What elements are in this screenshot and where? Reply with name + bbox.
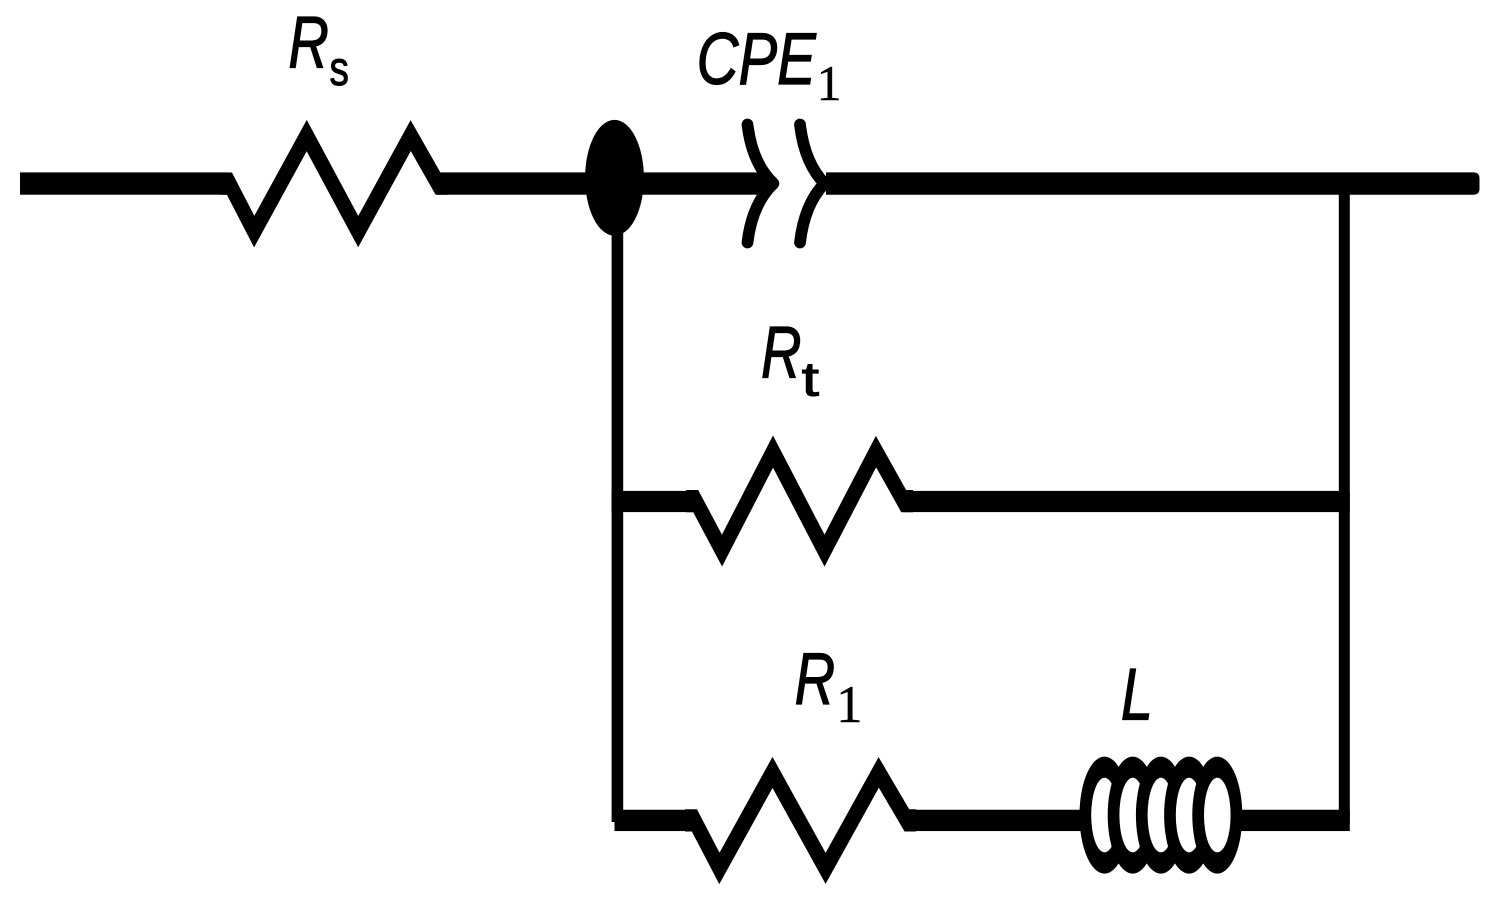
svg-text:R: R (795, 639, 836, 720)
svg-text:R: R (288, 3, 329, 84)
svg-text:s: s (330, 42, 349, 96)
svg-text:R: R (761, 313, 802, 394)
svg-text:t: t (802, 353, 820, 407)
svg-text:1: 1 (817, 56, 842, 111)
svg-text:CPE: CPE (697, 19, 817, 100)
svg-text:L: L (1121, 655, 1153, 736)
svg-text:1: 1 (836, 676, 862, 734)
